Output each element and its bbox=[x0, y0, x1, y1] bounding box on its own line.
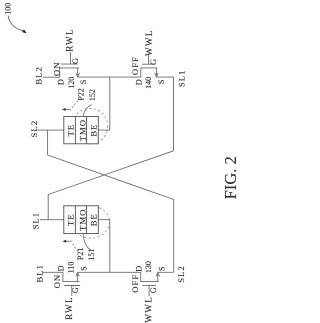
wire junction branch to BE of 152 bbox=[98, 77, 110, 130]
svg-text:ON: ON bbox=[52, 62, 62, 77]
transistor 140 gate lead to WWL bbox=[148, 54, 150, 65]
svg-text:G: G bbox=[71, 287, 80, 293]
wire SL1 diagonal (cross) bbox=[48, 151, 173, 195]
arrowhead source 140 bbox=[155, 73, 159, 77]
transistor 120 source lead bbox=[77, 68, 79, 77]
transistor 140 source lead bbox=[155, 68, 157, 77]
leader dashed from P21 label bbox=[72, 242, 78, 252]
arrow P22 (current path) bbox=[64, 108, 72, 110]
svg-text:P22: P22 bbox=[77, 88, 86, 100]
svg-text:G: G bbox=[149, 287, 158, 293]
svg-text:100: 100 bbox=[4, 3, 13, 15]
svg-text:120: 120 bbox=[67, 77, 76, 89]
wire SL2 to 130 source bbox=[158, 271, 174, 273]
svg-text:G: G bbox=[71, 58, 80, 64]
svg-text:110: 110 bbox=[66, 262, 75, 274]
svg-text:151: 151 bbox=[87, 249, 96, 261]
transistor 130 channel bbox=[140, 281, 158, 283]
transistor 110 channel bbox=[63, 281, 80, 283]
svg-text:152: 152 bbox=[88, 89, 97, 101]
arrowhead source 110 bbox=[76, 273, 80, 277]
dashed circle highlight around BE of 152 bbox=[72, 108, 108, 144]
svg-text:BL2: BL2 bbox=[34, 66, 44, 84]
svg-text:SL2: SL2 bbox=[29, 120, 39, 137]
transistor 110 gate bar bbox=[64, 285, 80, 287]
wire source run 110 to 130 bbox=[78, 271, 141, 273]
memory cell 152 box bbox=[64, 116, 99, 143]
transistor 140 drain lead bbox=[140, 68, 142, 77]
svg-text:D: D bbox=[135, 266, 144, 272]
wire BL1 stub to drain lead of 110 bbox=[43, 272, 63, 281]
svg-text:RWL: RWL bbox=[65, 28, 75, 52]
svg-text:S: S bbox=[79, 79, 88, 84]
svg-text:TE: TE bbox=[65, 213, 75, 226]
svg-text:RWL: RWL bbox=[64, 296, 74, 320]
wire BL2 stub to drain lead of 120 bbox=[43, 68, 60, 77]
transistor 130 gate bar bbox=[143, 284, 157, 286]
dashed circle highlight around BE of 151 bbox=[72, 206, 110, 238]
transistor 130 gate lead to WWL bbox=[148, 285, 150, 296]
svg-text:TMO: TMO bbox=[77, 209, 87, 231]
wire 140 source to right edge bbox=[156, 76, 173, 78]
svg-text:TMO: TMO bbox=[77, 119, 87, 141]
svg-text:WWL: WWL bbox=[144, 296, 154, 323]
svg-text:OFF: OFF bbox=[130, 56, 140, 75]
svg-text:BE: BE bbox=[89, 124, 99, 137]
leader dashed from P22 label bbox=[71, 101, 78, 109]
svg-text:G: G bbox=[149, 59, 158, 65]
leader from 151 label bbox=[83, 234, 91, 250]
svg-text:S: S bbox=[157, 79, 166, 84]
svg-text:D: D bbox=[135, 79, 144, 85]
svg-text:SL1: SL1 bbox=[176, 70, 186, 87]
svg-text:D: D bbox=[57, 79, 66, 85]
wire SL1 right vertical bbox=[173, 77, 175, 151]
wire source run 120 to 140 bbox=[78, 76, 141, 78]
wire SL1 horizontal to cell 151 bbox=[40, 219, 64, 221]
transistor 140 channel bbox=[140, 67, 157, 69]
svg-text:BE: BE bbox=[89, 213, 99, 226]
svg-text:ON: ON bbox=[52, 274, 62, 289]
leader from 152 label bbox=[83, 105, 91, 117]
transistor 110 gate lead to RWL bbox=[71, 286, 73, 296]
wire SL1 left vertical drop bbox=[47, 195, 49, 220]
transistor 120 gate lead to RWL bbox=[70, 52, 72, 64]
svg-text:S: S bbox=[158, 266, 167, 271]
transistor 130 drain lead bbox=[140, 272, 142, 281]
svg-text:BL1: BL1 bbox=[34, 264, 44, 282]
memory cell 151 box bbox=[64, 206, 99, 234]
wire SL2 diagonal (cross) bbox=[48, 155, 174, 200]
svg-text:P21: P21 bbox=[76, 248, 85, 260]
svg-text:130: 130 bbox=[144, 261, 153, 273]
arrowhead source 130 bbox=[156, 273, 160, 277]
wire junction branch to BE of 151 bbox=[98, 220, 110, 273]
reference arrow for 100 bbox=[8, 16, 23, 31]
svg-text:D: D bbox=[57, 265, 66, 271]
wire SL2 right vertical bbox=[173, 200, 175, 273]
svg-text:SL2: SL2 bbox=[176, 265, 186, 282]
transistor 110 source lead bbox=[77, 273, 79, 282]
transistor 140 gate bar bbox=[142, 63, 156, 65]
transistor 130 source lead bbox=[157, 273, 159, 282]
svg-text:OFF: OFF bbox=[130, 274, 140, 293]
svg-text:SL1: SL1 bbox=[31, 212, 41, 229]
svg-text:FIG. 2: FIG. 2 bbox=[221, 156, 240, 199]
wire SL2 horizontal to cell 152 bbox=[38, 129, 64, 131]
transistor 120 gate bar bbox=[61, 63, 78, 65]
svg-text:TE: TE bbox=[65, 124, 75, 137]
wire SL2 left vertical drop bbox=[47, 130, 49, 155]
arrowhead source 120 bbox=[76, 73, 80, 77]
arrow P21 (current path) bbox=[64, 240, 72, 242]
transistor 120 channel bbox=[60, 67, 80, 69]
svg-text:140: 140 bbox=[144, 77, 153, 89]
svg-text:WWL: WWL bbox=[144, 29, 154, 56]
svg-text:S: S bbox=[79, 266, 88, 271]
